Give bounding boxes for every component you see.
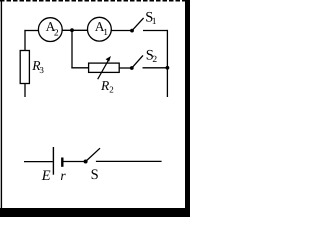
svg-text:2: 2 bbox=[152, 55, 157, 65]
wire left branch vertical bbox=[24, 30, 26, 51]
svg-text:1: 1 bbox=[103, 28, 108, 38]
wire below R3 bbox=[24, 84, 26, 98]
wire top-left horizontal bbox=[24, 30, 39, 32]
frame bars (page crop) bbox=[0, 0, 190, 217]
ammeter A1 bbox=[88, 17, 112, 41]
svg-text:S: S bbox=[91, 167, 99, 183]
wire A1 to S1 bbox=[111, 30, 132, 32]
node junction dot right bbox=[166, 66, 170, 70]
wire bottom left bbox=[24, 161, 53, 163]
wire R2 to S2 bbox=[119, 67, 132, 69]
svg-text:2: 2 bbox=[54, 28, 59, 38]
switch S1 bbox=[130, 9, 157, 32]
svg-text:2: 2 bbox=[109, 85, 114, 95]
battery E long plate bbox=[52, 147, 54, 175]
wire middle branch horizontal bbox=[71, 67, 88, 69]
svg-text:E: E bbox=[41, 168, 51, 184]
rheostat R2 bbox=[89, 56, 120, 95]
wire middle branch vertical bbox=[71, 30, 73, 68]
switch S2 bbox=[130, 47, 157, 70]
resistor R3 bbox=[20, 51, 44, 84]
switch S bbox=[84, 148, 100, 183]
wire right vertical bbox=[166, 30, 168, 97]
svg-text:r: r bbox=[60, 168, 66, 183]
svg-text:1: 1 bbox=[152, 17, 157, 27]
svg-text:3: 3 bbox=[39, 65, 44, 75]
battery r short plate bbox=[61, 158, 63, 167]
wire between A2 and A1 bbox=[62, 29, 88, 31]
ammeter A2 bbox=[38, 18, 62, 42]
wire S2 fixed side to right wire bbox=[143, 67, 169, 69]
wire S to right end bbox=[96, 160, 162, 162]
wire battery to S bbox=[63, 161, 85, 163]
wire S1 fixed side to right corner bbox=[143, 30, 168, 32]
node junction dot bbox=[70, 28, 74, 32]
